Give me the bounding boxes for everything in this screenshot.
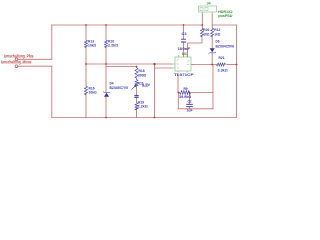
- svg-text:1uF: 1uF: [187, 109, 194, 113]
- svg-text:TL071CP: TL071CP: [174, 73, 194, 77]
- wire C2 top lead: [189, 93, 191, 105]
- wire bottom rail: [52, 117, 237, 119]
- svg-text:Umschaltung_Plus: Umschaltung_Plus: [4, 53, 34, 58]
- svg-text:R9: R9: [184, 87, 188, 91]
- wire C3 top lead: [183, 25, 185, 39]
- wire right vertical: [236, 25, 238, 118]
- potentiometer R11: [132, 80, 151, 90]
- wire feedback drop: [177, 74, 179, 93]
- wire top rail: [52, 24, 203, 26]
- wire output row: [191, 64, 216, 66]
- wire R18-R11 link: [136, 78, 138, 80]
- wire R10-D4 column: [105, 25, 107, 118]
- junction dots: [85, 24, 237, 118]
- wire C2 loop bottom: [178, 108, 213, 110]
- wire R11-blob link: [136, 87, 138, 95]
- svg-text:D6: D6: [216, 40, 220, 44]
- svg-text:posPSU: posPSU: [218, 14, 232, 18]
- wire blob-R19 link: [136, 98, 138, 103]
- capacitor C3: [178, 32, 192, 51]
- wire R20 column: [188, 25, 203, 57]
- svg-text:R18: R18: [139, 69, 145, 73]
- wire mid node B: [106, 66, 137, 68]
- wire R16 column: [85, 64, 87, 118]
- capacitor blob: [134, 96, 138, 98]
- wire mid node A: [86, 63, 172, 65]
- resistor R13: [85, 39, 97, 47]
- svg-text:Umschaltung_Minus: Umschaltung_Minus: [1, 60, 32, 65]
- svg-text:2.2kΩ: 2.2kΩ: [108, 44, 118, 48]
- node Umschaltung_Minus: [1, 60, 32, 68]
- wire Umschaltung_Minus lead: [21, 65, 52, 67]
- wire R18 column link: [136, 67, 138, 68]
- wire center ground drop: [154, 64, 156, 118]
- node Umschaltung_Plus: [4, 53, 34, 60]
- wire left lower vertical: [51, 66, 53, 117]
- svg-text:R20: R20: [203, 28, 209, 32]
- wire R12-D6 column: [211, 25, 213, 65]
- wire R9 row: [178, 92, 213, 94]
- resistor R10: [105, 39, 119, 47]
- wire R9 riser: [212, 65, 214, 109]
- zener diode D4: [103, 82, 128, 97]
- resistor R16: [85, 86, 97, 95]
- svg-text:10kΩ: 10kΩ: [88, 44, 96, 48]
- wire R13 column: [85, 25, 87, 64]
- wire R19 bottom: [136, 108, 138, 118]
- wire Umschaltung_Plus lead: [21, 58, 52, 60]
- wire R21 right lead: [227, 64, 237, 66]
- svg-text:4.5V: 4.5V: [142, 83, 151, 87]
- resistor R21: [216, 56, 228, 73]
- wire pin2 jog: [212, 14, 236, 25]
- wire left upper vertical: [51, 25, 53, 59]
- connector J4 HDR1X2: [199, 2, 233, 18]
- svg-text:100nF: 100nF: [178, 47, 192, 51]
- svg-text:2.2kΩ: 2.2kΩ: [138, 104, 148, 108]
- resistor R12: [211, 28, 221, 37]
- svg-text:R21: R21: [219, 56, 225, 60]
- wire pin1 drop: [201, 14, 203, 25]
- capacitor C2: [186, 100, 193, 113]
- svg-text:C2: C2: [188, 100, 192, 104]
- svg-text:10kΩ: 10kΩ: [89, 91, 97, 95]
- resistor R19: [135, 100, 148, 110]
- op-amp U4 TL071CP: [172, 52, 194, 77]
- wire C2 loop left: [177, 93, 179, 109]
- svg-text:390Ω: 390Ω: [138, 74, 146, 78]
- svg-text:C3: C3: [182, 32, 187, 36]
- resistor R18: [135, 68, 146, 78]
- svg-text:R12: R12: [214, 28, 220, 32]
- svg-text:3.3kΩ: 3.3kΩ: [218, 69, 228, 73]
- resistor R20: [201, 28, 210, 37]
- svg-text:10Ω: 10Ω: [203, 32, 209, 36]
- wire C2 bottom lead: [189, 107, 191, 109]
- svg-text:BZX84C5V6: BZX84C5V6: [216, 44, 234, 48]
- svg-text:1kΩ: 1kΩ: [214, 32, 220, 36]
- resistor R9: [179, 87, 191, 99]
- svg-text:BZX85C7V5: BZX85C7V5: [110, 86, 128, 90]
- zener diode D6: [209, 40, 234, 54]
- wire in- stub row: [155, 67, 173, 69]
- wire C3 bottom lead: [183, 42, 185, 57]
